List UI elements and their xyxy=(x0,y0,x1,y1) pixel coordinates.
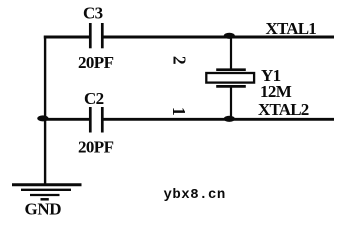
value 20PF (C2) xyxy=(78,138,114,157)
crystal Y1 xyxy=(206,70,254,87)
label Y1 xyxy=(261,66,281,85)
svg-text:2: 2 xyxy=(169,56,189,65)
wire: left vertical bus from XTAL1 wire down to ground xyxy=(44,36,46,185)
label C2 xyxy=(84,89,104,108)
capacitor C3 xyxy=(90,23,102,48)
svg-text:1: 1 xyxy=(169,107,189,116)
svg-text:XTAL1: XTAL1 xyxy=(266,19,317,38)
wire: bottom horizontal net XTAL2, left segment from left bus to C2 left plate xyxy=(44,118,90,121)
ground xyxy=(12,185,82,200)
svg-text:GND: GND xyxy=(25,200,62,219)
svg-text:20PF: 20PF xyxy=(78,53,114,72)
node: junction of XTAL2 wire and crystal pin 1 wire xyxy=(224,116,235,122)
wire: from crystal Y1 bottom plate down to XTAL2 junction xyxy=(230,88,232,119)
wire: top horizontal net XTAL1, left segment from left bus to C3 left plate xyxy=(44,36,90,39)
svg-text:ybx8.cn: ybx8.cn xyxy=(164,187,226,203)
wire: from top junction down to crystal Y1 top plate xyxy=(230,36,232,70)
net label XTAL1 xyxy=(266,19,317,38)
watermark ybx8.cn xyxy=(164,187,226,203)
wire: top horizontal net XTAL1, right segment from C3 to right edge xyxy=(103,36,334,39)
node: junction of XTAL1 wire and crystal pin 2 wire xyxy=(224,33,235,39)
label C3 xyxy=(83,4,103,23)
svg-text:20PF: 20PF xyxy=(78,138,114,157)
pin number 2 (crystal pin, rotated) xyxy=(169,56,189,65)
value 20PF (C3) xyxy=(78,53,114,72)
svg-text:12M: 12M xyxy=(260,82,292,101)
svg-text:C2: C2 xyxy=(84,89,104,108)
capacitor C2 xyxy=(90,107,102,133)
svg-text:C3: C3 xyxy=(83,4,103,23)
pin number 1 (crystal pin, rotated) xyxy=(169,107,189,116)
svg-text:XTAL2: XTAL2 xyxy=(258,100,309,119)
wire: bottom horizontal net XTAL2, right segment from C2 to right edge xyxy=(103,118,334,121)
node: junction of left bus and XTAL2 wire xyxy=(37,115,48,121)
value 12M xyxy=(260,82,292,101)
label GND xyxy=(25,200,62,219)
net label XTAL2 xyxy=(258,100,309,119)
